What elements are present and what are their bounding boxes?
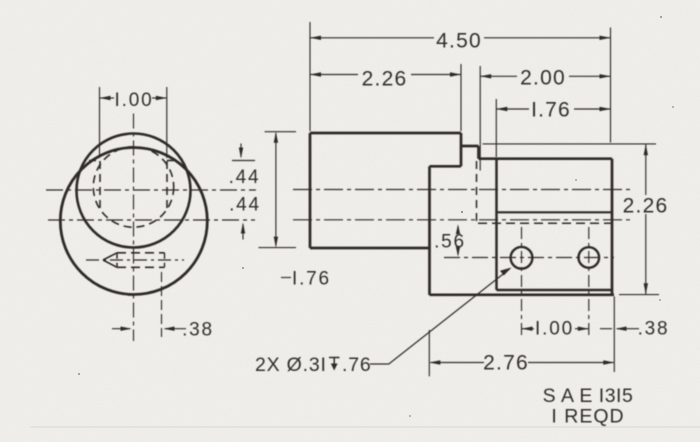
milled flat top edge: [479, 157, 613, 160]
dim 4.50: [310, 37, 611, 39]
dim .44 lower arrow: [242, 224, 244, 240]
svg-text:I.76: I.76: [292, 268, 331, 289]
drill cone hidden: [103, 253, 117, 267]
svg-text:I.00: I.00: [115, 90, 154, 111]
depth symbol in note: [329, 358, 340, 369]
slot side hidden line left: [99, 161, 101, 211]
inner bottom edge: [497, 289, 613, 292]
drill cone base hidden: [116, 253, 118, 267]
dim .38 ext line: [161, 272, 163, 337]
svg-text:I.76: I.76: [531, 99, 571, 122]
svg-text:2X Ø.3I: 2X Ø.3I: [255, 354, 327, 376]
faint scan fold line: [30, 426, 700, 428]
dim 2.76: [431, 362, 614, 364]
small circle boss: [77, 134, 191, 248]
svg-text:I.00: I.00: [535, 318, 574, 339]
svg-text:.38: .38: [638, 318, 670, 339]
svg-text:2.26: 2.26: [362, 68, 408, 91]
cylinder left face: [309, 133, 312, 248]
right face: [611, 159, 614, 295]
svg-text:S A E I3I5: S A E I3I5: [543, 385, 634, 407]
svg-text:2.00: 2.00: [520, 67, 566, 90]
drill hole bottom hidden line: [117, 266, 165, 268]
outer bottom edge: [430, 293, 615, 296]
cylinder top edge: [310, 132, 461, 135]
hidden line flat bottom: [478, 222, 613, 224]
dim .44 reference line (ledge ext): [232, 160, 255, 162]
svg-text:.44: .44: [229, 195, 261, 216]
hole 1 centerline vertical: [521, 227, 523, 338]
label leader 1.76: [281, 277, 291, 279]
dim 1.76: [496, 108, 610, 110]
ext 2.76 left: [428, 330, 430, 376]
dim .38 arrow: [617, 328, 639, 330]
dim 1.76 dia left: vertical line with arrows: [265, 131, 296, 133]
ext line pocket left up: [495, 99, 497, 157]
hole centerline horizontal: [444, 257, 614, 259]
pocket floor edge: [497, 211, 613, 213]
centerline vertical left view: [133, 114, 135, 342]
centerline horizontal small circle: [46, 189, 256, 191]
drill hole end hidden: [164, 253, 166, 267]
svg-text:.44: .44: [229, 167, 261, 188]
inner pocket left edge: [495, 159, 498, 290]
svg-text:2.76: 2.76: [483, 352, 529, 375]
block left edge: [428, 166, 431, 295]
ext right edge down: [613, 296, 615, 372]
hole 1: [511, 247, 533, 269]
svg-text:4.50: 4.50: [436, 30, 482, 53]
dim .56 arrows: [457, 226, 459, 235]
dim 1.00 ext line right: [166, 87, 168, 158]
hole 2 centerline vertical: [588, 227, 590, 338]
hidden vertical tangent: [476, 161, 478, 225]
step vertical at cylinder end: [460, 133, 463, 166]
dim 1.00 ext line left: [99, 87, 101, 158]
svg-text:.76: .76: [342, 354, 372, 376]
ext line cyl end up: [460, 64, 462, 131]
dim 2.26 top: [310, 74, 461, 76]
large circle body: [60, 148, 207, 295]
dim .38 right arrow: [165, 328, 186, 330]
hidden bore circle dashed: [93, 147, 173, 227]
step down to flat: [477, 146, 480, 159]
dim .38 bottom right stub: [600, 328, 612, 330]
svg-text:2.26: 2.26: [623, 195, 669, 218]
dim 2.26 right: vertical: [645, 145, 647, 295]
collar bottom horizontal: [430, 165, 462, 168]
slot side hidden line right: [166, 161, 168, 211]
ext line horizontal for 2.26 top: [483, 143, 657, 145]
hole 2: [579, 247, 600, 268]
cylinder bottom edge: [310, 247, 430, 250]
ext line left face up: [309, 22, 311, 131]
dim 1.00 bottom: [522, 328, 589, 330]
drill hole top hidden line: [117, 252, 165, 254]
step top of large cylinder: [461, 145, 479, 148]
centerline large cyl right view: [293, 219, 631, 221]
svg-text:I REQD: I REQD: [551, 406, 624, 428]
dim .44 upper arrow: [240, 144, 242, 158]
ext line right face up: [610, 28, 612, 143]
dim .38 left arrow: [112, 328, 130, 330]
ext line step corner up: [479, 66, 481, 171]
centerline horizontal large circle: [48, 219, 255, 221]
dim 2.00: [480, 75, 610, 77]
centerline small cyl right view: [293, 189, 631, 191]
ext line horizontal for 2.26 bottom: [619, 294, 659, 296]
dim 1.00 arrows: [100, 97, 167, 99]
centerline drill hole: [86, 259, 184, 261]
scan specks: [78, 16, 674, 417]
svg-text:.38: .38: [182, 319, 214, 340]
svg-text:.56: .56: [434, 231, 466, 252]
leader to hole: [370, 269, 510, 364]
ledge hidden stub left: [89, 160, 100, 162]
ledge hidden stub right: [167, 160, 178, 162]
